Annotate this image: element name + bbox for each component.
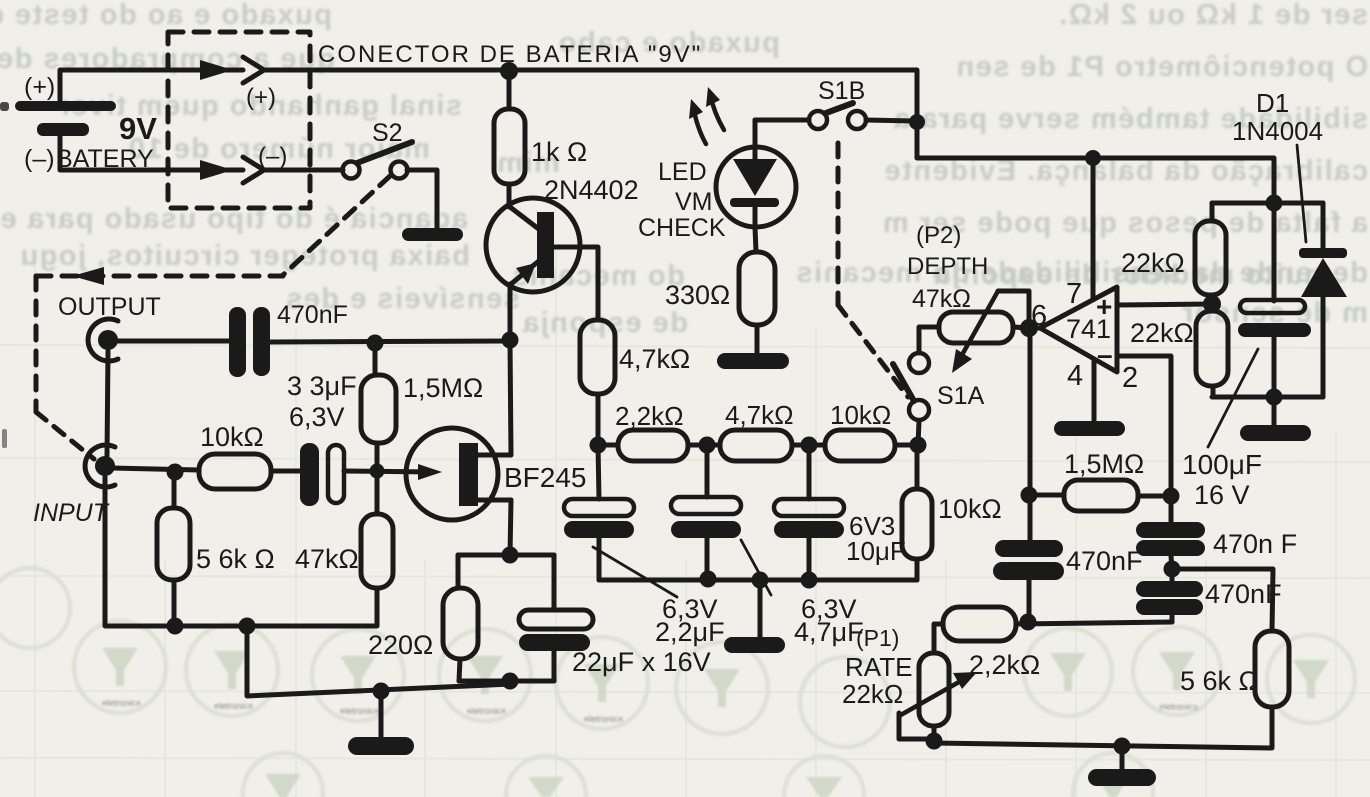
node 1,5M top: [367, 335, 384, 352]
resistor 1k: [494, 109, 525, 184]
svg-text:(–): (–): [258, 143, 287, 170]
node rail downstub: [239, 618, 256, 635]
capacitor 22uF 16V: [519, 610, 593, 651]
svg-text:BF245: BF245: [504, 462, 587, 493]
svg-text:+: +: [1096, 291, 1112, 322]
ground left: [348, 737, 414, 755]
potentiometer P2 47k: [939, 312, 1013, 343]
pointer D1: [1297, 145, 1306, 242]
resistor 10k chain: [825, 430, 895, 461]
jack J1 output: [88, 319, 118, 361]
potentiometer P1 22k: [919, 653, 949, 743]
node caps rail C: [801, 572, 818, 589]
node 220-22u bottom: [502, 673, 519, 690]
ground below 330: [717, 353, 789, 369]
svg-text:330Ω: 330Ω: [665, 280, 730, 310]
svg-text:puxado e ao do teste de força,: puxado e ao do teste de força, caso o: [0, 0, 332, 31]
wire top rail: [264, 70, 1274, 203]
wire 22uF bottom: [552, 651, 557, 681]
capacitor 470nF mid: [1136, 522, 1205, 569]
wire to 220: [456, 555, 461, 588]
node 470 caps: [1164, 561, 1181, 578]
capacitor 470nF output: [229, 307, 270, 377]
node chain A: [590, 437, 607, 454]
svg-text:2,2μF: 2,2μF: [655, 617, 725, 647]
wire 470 node to 56k: [1172, 569, 1273, 631]
resistor 10k right vertical: [902, 445, 932, 580]
svg-text:4,7kΩ: 4,7kΩ: [619, 344, 690, 374]
svg-text:9V: 9V: [119, 111, 157, 146]
ground right: [1240, 425, 1311, 441]
op-amp U1 741: [1040, 287, 1117, 372]
dashed enclosure top with arrow: [36, 267, 283, 285]
ground bottom right: [1088, 769, 1156, 786]
svg-text:470nF: 470nF: [277, 301, 348, 329]
node chain B: [699, 437, 716, 454]
diode D1 1N4004: [1299, 203, 1347, 397]
node bottomright: [1266, 389, 1283, 406]
node 1,5M right: [1163, 488, 1180, 505]
scan speck left edge mid: [2, 429, 7, 448]
wire to 22uF: [552, 555, 557, 610]
pointer 2,2uF: [593, 547, 677, 597]
resistor 56k input: [157, 508, 190, 580]
node chain C: [801, 437, 818, 454]
svg-text:(P1): (P1): [856, 625, 899, 651]
wire BF245 drain up: [510, 341, 511, 455]
pointer 4,7uF: [741, 540, 771, 595]
wire 10k to 33u: [271, 469, 300, 474]
wire pin3 plus input: [1117, 304, 1212, 305]
wire BF245 source down: [510, 500, 511, 555]
wire chain to S1A node: [895, 443, 918, 448]
svg-text:1N4004: 1N4004: [1232, 116, 1323, 146]
node P1 bottom: [926, 733, 943, 750]
wire pin7: [1091, 158, 1096, 299]
wire 1k to Q1: [507, 184, 512, 207]
svg-text:–: –: [1097, 339, 1113, 370]
node bottom gnd stub: [1114, 738, 1131, 755]
node rail 56k: [167, 618, 184, 635]
wire jacks shield: [107, 351, 108, 456]
wire battery + to connector: [60, 60, 243, 101]
scan speck left edge top: [0, 102, 9, 111]
svg-text:10kΩ: 10kΩ: [938, 494, 1002, 524]
svg-text:470nF: 470nF: [1066, 546, 1143, 576]
battery B1 9V: [15, 101, 116, 136]
wire 330 to ground: [755, 325, 760, 354]
svg-text:eletronica: eletronica: [340, 706, 379, 716]
wire 56k to bottom rail: [934, 707, 1272, 748]
svg-text:eletronica: eletronica: [467, 706, 506, 716]
wire Q1 base right and down: [554, 247, 598, 320]
svg-text:1k Ω: 1k Ω: [531, 137, 587, 167]
svg-text:10μF: 10μF: [846, 536, 906, 566]
resistor 4,7k vertical: [580, 320, 615, 394]
node source: [502, 547, 519, 564]
transistor Q1 2N4402: [486, 198, 580, 292]
svg-text:(+): (+): [24, 73, 55, 101]
svg-text:22kΩ: 22kΩ: [842, 679, 903, 709]
svg-text:4: 4: [1067, 360, 1083, 392]
svg-text:220Ω: 220Ω: [368, 630, 433, 660]
wire chain BC: [792, 443, 825, 448]
svg-text:DEPTH: DEPTH: [907, 253, 988, 280]
svg-text:22μF x 16V: 22μF x 16V: [572, 647, 711, 677]
svg-text:eletronica: eletronica: [102, 698, 141, 708]
svg-text:2: 2: [1122, 362, 1138, 394]
wire battery - to connector: [60, 136, 243, 180]
svg-text:6,3V: 6,3V: [289, 402, 345, 432]
wire to ground right: [1272, 397, 1277, 426]
wire pin4 to ground: [1092, 360, 1097, 422]
jack J2 input: [85, 445, 115, 487]
svg-text:1,5MΩ: 1,5MΩ: [1064, 449, 1144, 479]
svg-text:100μF: 100μF: [1182, 449, 1262, 480]
svg-text:3 3μF: 3 3μF: [287, 371, 357, 401]
dashed link S1B-S1A: [838, 143, 908, 397]
svg-text:O potenciômetro P1 de sen: O potenciômetro P1 de sen: [955, 51, 1368, 83]
capacitor 33uF: [300, 443, 344, 506]
node ground stub left: [373, 683, 390, 700]
svg-text:2,2kΩ: 2,2kΩ: [615, 401, 684, 431]
node gate 1,5M-47k: [370, 464, 385, 479]
svg-text:470n F: 470n F: [1213, 529, 1297, 559]
resistor 1,5M vertical: [361, 375, 396, 443]
wire (-) to S2: [264, 168, 343, 173]
dashed enclosure left side: [34, 276, 39, 412]
wire C470n to emitter node: [270, 341, 510, 342]
dashed enclosure diagonal to input: [36, 412, 94, 459]
wire rail to R 1k: [507, 71, 512, 109]
P1 wiper arrow: [899, 672, 977, 716]
svg-text:(–): (–): [24, 145, 55, 173]
wire P1 wiper hook: [899, 713, 934, 739]
wire P2 right to node6: [1013, 327, 1029, 328]
node caps rail B: [700, 571, 717, 588]
resistor 4,7k chain: [720, 430, 792, 461]
svg-text:eletronica: eletronica: [1159, 702, 1198, 712]
svg-text:1,5MΩ: 1,5MΩ: [403, 373, 483, 403]
wire S1B to rail node: [866, 120, 915, 121]
node 22k mid: [1203, 295, 1221, 313]
wire osc mid rail: [1016, 622, 1172, 624]
wire LED to 330: [755, 227, 756, 252]
connector pin (+) chevron: [243, 57, 264, 83]
capacitor 470nF low: [1136, 569, 1203, 622]
wire 1,5M top: [373, 343, 378, 375]
wire P2 wiper loop: [998, 291, 1029, 328]
wire S1A to P2: [919, 327, 939, 353]
transistor Q2 BF245: [406, 428, 511, 520]
node 1,5M left: [1021, 487, 1038, 504]
svg-text:ser de 1 kΩ ou 2 kΩ.: ser de 1 kΩ ou 2 kΩ.: [1058, 0, 1368, 31]
dashed link S2 to enclosure: [283, 176, 390, 275]
wire chain rail: [598, 443, 618, 448]
svg-text:5 6k Ω: 5 6k Ω: [1180, 666, 1259, 696]
svg-text:7: 7: [1066, 278, 1082, 310]
wire gnd stub bottomright: [1120, 746, 1125, 770]
wire source node bar: [458, 553, 554, 558]
node osc mid: [1020, 614, 1037, 631]
wire 220 bottom: [459, 659, 460, 681]
wire 4,7k to chain: [596, 394, 601, 445]
resistor 10k input: [199, 454, 271, 489]
svg-text:RATE: RATE: [845, 652, 912, 682]
wire Q1 emitter down: [508, 284, 513, 340]
svg-text:10kΩ: 10kΩ: [200, 422, 264, 452]
svg-text:47kΩ: 47kΩ: [912, 285, 971, 313]
svg-text:2,2kΩ: 2,2kΩ: [969, 650, 1040, 680]
svg-text:VM: VM: [675, 188, 713, 216]
wire top rail right: [1212, 201, 1323, 206]
resistor 47k vertical: [361, 514, 393, 588]
svg-text:4,7kΩ: 4,7kΩ: [725, 400, 794, 430]
svg-text:S1A: S1A: [937, 382, 985, 410]
wire input to 10k: [112, 468, 199, 470]
svg-text:INPUT: INPUT: [33, 499, 110, 527]
wire ground stub left: [379, 691, 384, 738]
svg-text:10kΩ: 10kΩ: [830, 400, 891, 430]
resistor 22k lower: [1196, 304, 1228, 397]
connector dashed box: [168, 32, 310, 208]
svg-text:47kΩ: 47kΩ: [295, 544, 359, 574]
resistor 2,2k osc: [934, 607, 1016, 653]
svg-text:5 6k Ω: 5 6k Ω: [196, 544, 275, 574]
svg-text:4,7μF: 4,7μF: [794, 617, 864, 647]
node caps rail gnd: [752, 572, 769, 589]
svg-text:LED: LED: [658, 158, 707, 186]
node chain D: [910, 437, 927, 454]
node 6: [1020, 319, 1038, 337]
resistor 56k right: [1255, 631, 1289, 707]
svg-text:S2: S2: [372, 119, 403, 147]
svg-text:16 V: 16 V: [1194, 480, 1250, 510]
LED light arrows: [689, 87, 724, 144]
wire 33u to gate: [344, 464, 442, 480]
node rail-S1B: [909, 114, 925, 130]
wire node6 to opamp: [1029, 326, 1042, 331]
svg-text:eletronica: eletronica: [584, 714, 623, 724]
wire LED top to S1B: [755, 118, 809, 123]
node emitter-470n: [502, 332, 519, 349]
wire bottom node bar: [459, 679, 554, 684]
svg-text:S1B: S1B: [818, 77, 865, 105]
svg-text:D1: D1: [1256, 88, 1289, 118]
node rail pin7: [1085, 150, 1101, 166]
svg-text:(+): (+): [246, 84, 276, 111]
node topright: [1266, 195, 1283, 212]
wire 47k to rail: [375, 588, 380, 626]
switch S1B: [809, 103, 866, 129]
svg-text:(P2): (P2): [916, 222, 961, 249]
wire 1,5M to 47k: [375, 443, 380, 514]
ground center: [724, 637, 785, 653]
svg-text:22kΩ: 22kΩ: [1121, 248, 1185, 278]
wire chain AB: [688, 443, 720, 448]
resistor 2,2k chain: [618, 430, 688, 461]
capacitor C 2,2uF: [564, 445, 634, 580]
capacitor 100uF: [1238, 203, 1311, 397]
wire 56k bottom: [172, 580, 177, 626]
svg-text:eletronica: eletronica: [214, 701, 253, 711]
wire bottom rail right: [1212, 395, 1323, 400]
resistor 220: [443, 588, 478, 659]
wire node6 down: [1028, 328, 1033, 540]
wire pin2: [1117, 356, 1171, 522]
resistor 22k upper: [1195, 203, 1226, 304]
resistor 1,5M feedback: [1030, 480, 1171, 511]
wire rail to LED: [753, 120, 758, 148]
resistor 330: [739, 252, 775, 325]
wire S2 to ground: [407, 170, 437, 229]
node input 56k: [167, 464, 184, 481]
P2 wiper arrow: [952, 291, 998, 373]
capacitor 470nF left: [993, 540, 1064, 622]
wire caps ground stub: [758, 580, 763, 638]
svg-text:baixa proteger circuitos, jogu: baixa proteger circuitos, jogu: [19, 240, 470, 272]
connector pin (-) chevron: [243, 157, 264, 183]
wire input ground rail: [105, 477, 376, 626]
switch S2: [343, 142, 413, 179]
wire 56k top: [172, 472, 177, 508]
node rail 1k: [500, 62, 518, 80]
ground below S2: [402, 228, 463, 241]
ground pin4: [1054, 421, 1125, 436]
wire bottom node to ground rail: [247, 626, 511, 696]
wire output to C 470n: [114, 339, 229, 344]
wire caps bottom rail: [599, 578, 917, 583]
LED VM check: [716, 147, 796, 227]
svg-text:22kΩ: 22kΩ: [1130, 318, 1194, 348]
capacitor C 10uF: [774, 445, 844, 580]
capacitor C 4,7uF: [671, 445, 741, 578]
pointer 100uF: [1208, 349, 1258, 447]
svg-text:2N4402: 2N4402: [544, 175, 639, 205]
switch S1A: [893, 353, 929, 445]
svg-text:CHECK: CHECK: [638, 214, 726, 242]
